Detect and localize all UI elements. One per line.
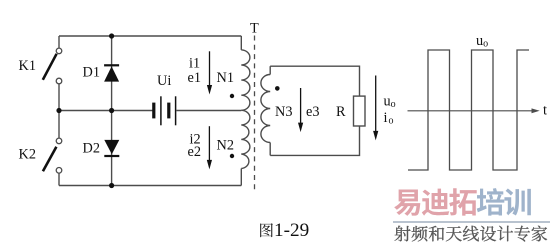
- resistor R: [354, 96, 366, 126]
- svg-text:e2: e2: [188, 144, 202, 160]
- svg-text:N3: N3: [275, 104, 292, 120]
- wire bottom rail: [59, 185, 241, 187]
- arrow i2/e2: [207, 126, 212, 169]
- wire K1 upper lead: [58, 36, 60, 48]
- node junction middle (D1/D2): [109, 108, 114, 113]
- phase dot N1: [230, 94, 234, 98]
- wire K2 lower lead: [58, 173, 60, 185]
- svg-text:K1: K1: [19, 58, 36, 74]
- waveform square wave uo: [408, 50, 529, 170]
- svg-text:N1: N1: [217, 70, 234, 86]
- battery Ui: [152, 96, 175, 125]
- svg-text:图1-29: 图1-29: [259, 219, 310, 241]
- svg-text:uo: uo: [384, 93, 396, 110]
- wire top rail: [59, 35, 241, 37]
- svg-text:Ui: Ui: [157, 73, 171, 89]
- arrow e3: [298, 88, 303, 132]
- svg-text:D2: D2: [83, 141, 100, 157]
- waveform axis t: [408, 108, 540, 113]
- wire secondary loop: [270, 66, 359, 155]
- transformer T primary winding N2: [241, 110, 250, 185]
- wire middle rail left: [59, 110, 153, 112]
- watermark title 易迪拓 (red): [394, 187, 531, 216]
- wire D2 branch: [111, 111, 113, 186]
- node junction middle left (K1/K2): [56, 108, 61, 113]
- svg-text:D1: D1: [83, 65, 100, 81]
- arrow uo/io: [373, 76, 378, 141]
- watermark subtitle 射频和天线设计专家: [394, 224, 548, 241]
- diode D1: [104, 64, 119, 81]
- switch K1: [43, 48, 62, 84]
- watermark underline: [393, 221, 550, 223]
- switch K2: [43, 138, 62, 173]
- wire K2 upper lead: [58, 111, 60, 139]
- svg-text:N2: N2: [217, 138, 234, 154]
- svg-text:R: R: [336, 104, 346, 120]
- transformer T primary winding N1: [241, 36, 250, 110]
- phase dot N2: [230, 154, 234, 158]
- svg-text:e1: e1: [188, 70, 202, 86]
- wire K1 lower lead: [58, 84, 60, 111]
- svg-text:t: t: [543, 103, 547, 119]
- diode D2: [104, 140, 119, 157]
- svg-text:i1: i1: [189, 55, 200, 71]
- svg-text:e3: e3: [306, 104, 320, 120]
- wire middle rail right (center tap): [177, 110, 242, 112]
- node junction bottom (D2-bottom rail): [109, 183, 114, 188]
- svg-text:uo: uo: [476, 33, 488, 50]
- wire D1 branch: [111, 36, 113, 111]
- transformer secondary winding N3: [261, 66, 270, 155]
- node junction top (D1-top rail): [109, 33, 114, 38]
- svg-text:io: io: [384, 110, 394, 127]
- arrow i1/e1: [207, 51, 212, 94]
- svg-text:T: T: [250, 20, 259, 36]
- transformer core (dashed): [254, 36, 256, 192]
- phase dot N3: [275, 86, 280, 91]
- svg-text:K2: K2: [19, 147, 36, 163]
